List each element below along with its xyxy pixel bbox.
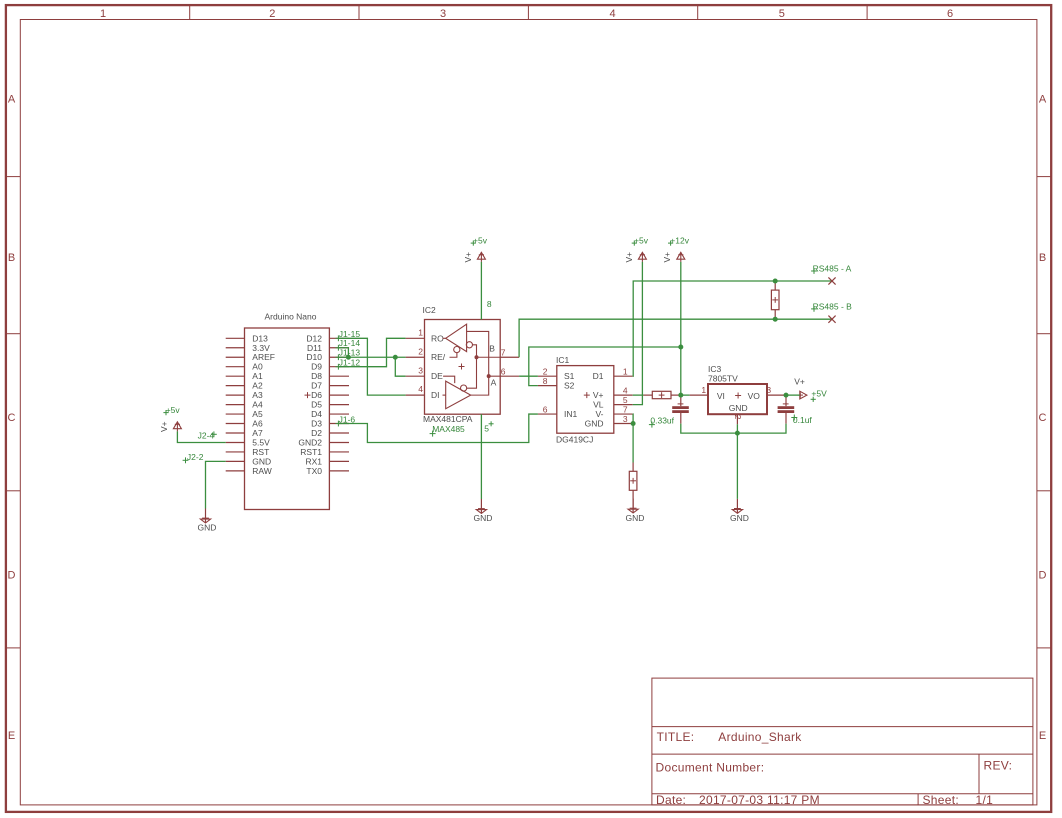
- Arduino Nano pin RST1: [329, 451, 349, 453]
- svg-text:7805TV: 7805TV: [708, 374, 738, 384]
- Arduino Nano pin 3.3V: [226, 347, 245, 349]
- svg-text:V+: V+: [662, 252, 672, 263]
- svg-text:+5v: +5v: [166, 405, 181, 415]
- wire IC2 pin 5 to ground: [480, 414, 482, 499]
- IC2 receiver inverting-input bubble: [466, 342, 472, 348]
- svg-text:VO: VO: [748, 391, 761, 401]
- wire branch RE/ to DE: [395, 357, 405, 376]
- ground (R3): [626, 499, 645, 523]
- svg-text:3: 3: [418, 365, 423, 375]
- svg-text:3: 3: [766, 385, 771, 395]
- wire Arduino GND to ground: [206, 461, 226, 508]
- power supply +5V (IC3 output): [794, 376, 827, 402]
- IC3 pin 1 VI: [690, 394, 708, 396]
- resistor R1 (series, V+ line): [643, 391, 680, 398]
- Arduino Nano pin RAW: [226, 470, 245, 472]
- svg-text:B: B: [489, 344, 495, 354]
- svg-text:DI: DI: [431, 390, 440, 400]
- ground (IC3): [730, 499, 749, 523]
- IC2 origin cross: [459, 366, 465, 368]
- svg-text:GND: GND: [474, 513, 493, 523]
- IC2 RE internal wire: [450, 353, 457, 357]
- Arduino Nano pin A6: [226, 423, 245, 425]
- IC1 pin 7: [614, 413, 633, 415]
- svg-text:RS485 - B: RS485 - B: [813, 301, 853, 311]
- IC1 pin 8: [538, 385, 557, 387]
- Arduino Nano pin AREF: [226, 356, 245, 358]
- svg-text:MAX481CPA: MAX481CPA: [423, 414, 473, 424]
- svg-text:E: E: [8, 730, 15, 742]
- svg-text:8: 8: [487, 299, 492, 309]
- svg-text:VI: VI: [717, 391, 725, 401]
- svg-text:1: 1: [100, 8, 106, 20]
- svg-text:Arduino_Shark: Arduino_Shark: [718, 730, 802, 744]
- op-amp transceiver IC2 MAX481CPA: [406, 299, 519, 437]
- Arduino Nano pin D13: [226, 337, 245, 339]
- Arduino Nano pin A2: [226, 385, 245, 387]
- power supply +12v (IC1 V+): [662, 236, 690, 263]
- IC2 receiver buffer triangle: [446, 324, 467, 351]
- svg-text:1: 1: [418, 327, 423, 337]
- net label RS485 - A: [811, 264, 852, 274]
- title block: [652, 678, 1033, 807]
- ground (Arduino GND): [198, 509, 217, 533]
- Arduino Nano pin TX0: [329, 470, 349, 472]
- net label J2-4: [198, 431, 217, 441]
- IC3 origin cross: [735, 395, 741, 397]
- net label RS485 - B: [811, 301, 852, 311]
- IC1 pin 1: [614, 375, 633, 377]
- svg-text:D: D: [8, 570, 16, 582]
- svg-text:J1-6: J1-6: [339, 414, 356, 424]
- wire D9 to IC2 RO (net J1-12): [338, 338, 405, 366]
- IC2 DE internal wire: [443, 376, 455, 383]
- svg-text:VL: VL: [593, 400, 604, 410]
- svg-text:8: 8: [543, 376, 548, 386]
- Arduino Nano pin D5: [329, 404, 349, 406]
- Arduino Nano pin GND2: [329, 441, 349, 443]
- IC1 pin 2: [538, 375, 557, 377]
- svg-text:+12v: +12v: [670, 236, 689, 246]
- wire IC3 GND to ground: [736, 424, 738, 499]
- svg-text:2: 2: [418, 346, 423, 356]
- resistor R3 (IC1 ground): [629, 463, 637, 510]
- svg-text:5: 5: [779, 8, 785, 20]
- svg-text:+5v: +5v: [473, 236, 488, 246]
- svg-text:RAW: RAW: [252, 466, 272, 476]
- wire IC3 VO to +5V arrow: [786, 394, 800, 396]
- svg-text:REV:: REV:: [984, 759, 1013, 773]
- junction S2/+12v: [678, 345, 683, 350]
- IC2 driver triangle: [446, 381, 471, 409]
- svg-text:5: 5: [484, 424, 489, 434]
- IC2 pin 3 DE: [406, 375, 425, 377]
- Arduino Nano pin RX1: [329, 460, 349, 462]
- Arduino Nano pin D12: [329, 337, 349, 339]
- svg-text:2: 2: [269, 8, 275, 20]
- svg-text:TITLE:: TITLE:: [657, 730, 695, 744]
- svg-text:RO: RO: [431, 333, 444, 343]
- voltage regulator IC3 7805TV: [690, 364, 786, 424]
- IC1 pin 6: [538, 413, 557, 415]
- svg-text:C: C: [1039, 412, 1047, 424]
- junction +12v/VI/C1: [678, 393, 683, 398]
- junction ground bus: [735, 431, 740, 436]
- svg-text:GND: GND: [198, 523, 217, 533]
- Arduino Nano pin D9: [329, 366, 349, 368]
- open end marker RS485-B: [828, 316, 835, 323]
- svg-text:+5V: +5V: [811, 389, 827, 399]
- svg-text:+5v: +5v: [634, 236, 649, 246]
- svg-text:V+: V+: [624, 252, 634, 263]
- wire IC2 B to RS485-B: [519, 319, 832, 357]
- power supply +5v (IC1 VL): [624, 236, 649, 263]
- IC2 pin 7 B: [500, 356, 519, 358]
- wire ground bus to C2: [737, 424, 786, 434]
- wire IC1 D1 to RS485-A: [633, 281, 832, 376]
- svg-text:Sheet:: Sheet:: [923, 793, 960, 807]
- svg-text:DE: DE: [431, 371, 443, 381]
- IC1 origin cross: [584, 394, 590, 396]
- svg-text:6: 6: [947, 8, 953, 20]
- Arduino Nano pin D3: [329, 423, 349, 425]
- Arduino Nano pin D2: [329, 432, 349, 434]
- wire IC2 A to IC1 S1: [519, 375, 538, 377]
- svg-text:GND: GND: [729, 403, 748, 413]
- svg-text:2: 2: [733, 415, 743, 420]
- wire IC1 GND junction to R3: [632, 424, 634, 463]
- wire D10 to IC2 RE/ (net J1-13): [338, 356, 405, 358]
- svg-text:4: 4: [418, 384, 423, 394]
- svg-text:V+: V+: [159, 421, 169, 432]
- Arduino Nano pin 5.5V: [226, 441, 245, 443]
- wire +5v to Arduino 5.5V: [177, 431, 225, 442]
- Arduino Nano pin A4: [226, 404, 245, 406]
- net label J1-13: [336, 348, 361, 360]
- Arduino Nano pin A5: [226, 413, 245, 415]
- IC1 pin 4: [614, 394, 633, 396]
- Arduino Nano pin D10: [329, 356, 349, 358]
- net label J1-14: [336, 338, 361, 350]
- svg-text:IC2: IC2: [423, 305, 437, 315]
- Arduino Nano pin D7: [329, 385, 349, 387]
- svg-text:7: 7: [501, 348, 506, 358]
- wire +12v to VI junction: [680, 262, 682, 395]
- svg-text:A: A: [8, 94, 16, 106]
- capacitor C2 0.1uf: [778, 395, 813, 425]
- IC1 pin 5: [614, 404, 633, 406]
- IC2 internal net B: [467, 345, 477, 388]
- svg-text:6: 6: [501, 367, 506, 377]
- net label J1-15: [336, 329, 361, 341]
- wire +5v to IC1 VL: [633, 262, 643, 405]
- IC1 pin 3: [614, 423, 633, 425]
- IC2 pin 4 DI: [406, 394, 425, 396]
- svg-text:GND: GND: [585, 419, 604, 429]
- svg-text:1/1: 1/1: [976, 793, 994, 807]
- svg-text:J1-12: J1-12: [339, 357, 361, 367]
- Arduino Nano pin D6: [329, 394, 349, 396]
- svg-text:B: B: [8, 252, 15, 264]
- wire R1 to IC3 VI: [680, 394, 689, 396]
- IC3 pin 2 GND: [736, 414, 738, 424]
- svg-text:V+: V+: [794, 376, 805, 386]
- junction RE//DE: [393, 355, 398, 360]
- svg-text:2017-07-03 11:17 PM: 2017-07-03 11:17 PM: [699, 793, 820, 807]
- svg-text:RS485 - A: RS485 - A: [813, 264, 852, 274]
- capacitor C1 0.33uf: [649, 395, 689, 427]
- IC2 pin 2 RE/: [406, 356, 425, 358]
- resistor R2 (RS485 termination): [771, 281, 779, 319]
- svg-text:Date:: Date:: [656, 793, 686, 807]
- svg-text:E: E: [1039, 730, 1046, 742]
- analog switch IC1 DG419CJ: [538, 355, 633, 444]
- wire D12 to IC2 DI (net J1-15): [338, 338, 405, 395]
- svg-text:J2-2: J2-2: [187, 452, 204, 462]
- svg-text:V+: V+: [463, 252, 473, 263]
- wire +5v to IC2 pin 8: [480, 262, 482, 320]
- svg-text:IN1: IN1: [564, 409, 578, 419]
- svg-text:1: 1: [701, 385, 706, 395]
- Arduino Nano pin GND: [226, 460, 245, 462]
- svg-text:A: A: [1039, 94, 1047, 106]
- svg-text:4: 4: [610, 8, 616, 20]
- power supply +5v (Arduino 5.5V): [159, 405, 182, 432]
- Arduino Nano pin D11: [329, 347, 349, 349]
- svg-text:D: D: [1039, 570, 1047, 582]
- Arduino Nano pin A1: [226, 375, 245, 377]
- net label J2-2: [183, 452, 204, 463]
- wire IC1 S2 to +12v line: [529, 347, 681, 386]
- svg-text:J1-14: J1-14: [339, 338, 361, 348]
- svg-text:DG419CJ: DG419CJ: [556, 434, 593, 444]
- power supply +5v (IC2 VCC): [463, 236, 488, 263]
- Arduino Nano pin D4: [329, 413, 349, 415]
- svg-text:1: 1: [623, 366, 628, 376]
- IC2 driver inverted-output bubble: [461, 385, 467, 391]
- svg-text:3: 3: [623, 414, 628, 424]
- svg-text:GND: GND: [626, 513, 645, 523]
- svg-text:GND: GND: [730, 513, 749, 523]
- junction IC1 V-/GND: [631, 421, 636, 426]
- svg-text:D1: D1: [593, 371, 604, 381]
- svg-text:RE/: RE/: [431, 352, 446, 362]
- net label J1-6: [336, 414, 356, 426]
- svg-text:C: C: [8, 412, 16, 424]
- wire D3 to IC1 IN1 (net J1-6): [338, 414, 538, 442]
- svg-text:B: B: [1039, 252, 1046, 264]
- IC2 internal net A: [467, 331, 489, 395]
- svg-text:IC3: IC3: [708, 364, 722, 374]
- svg-text:J1-13: J1-13: [339, 348, 361, 358]
- svg-text:V+: V+: [593, 390, 604, 400]
- wire D11 joining D10 net (net J1-14): [338, 348, 348, 357]
- svg-text:S2: S2: [564, 381, 575, 391]
- svg-text:TX0: TX0: [306, 466, 322, 476]
- junction RS485-B/R2: [773, 317, 778, 322]
- Arduino Nano pin A0: [226, 366, 245, 368]
- Arduino Nano pin D8: [329, 375, 349, 377]
- svg-text:J2-4: J2-4: [198, 431, 215, 441]
- IC2 pin 1 RO: [406, 337, 425, 339]
- svg-text:A: A: [491, 378, 497, 388]
- svg-text:S1: S1: [564, 371, 575, 381]
- IC2 pin 6 A: [500, 375, 519, 377]
- Arduino Nano pin RST: [226, 451, 245, 453]
- svg-text:IC1: IC1: [556, 355, 570, 365]
- IC2 receiver enable bubble: [454, 347, 460, 353]
- ground (IC2 pin 5): [474, 499, 493, 523]
- Arduino Nano pin A3: [226, 394, 245, 396]
- junction VO/C2: [784, 393, 789, 398]
- wire IC1 V+ to R1: [633, 394, 644, 396]
- open end marker RS485-A: [828, 277, 835, 284]
- svg-text:0.1uf: 0.1uf: [793, 415, 813, 425]
- svg-text:6: 6: [543, 404, 548, 414]
- junction RS485-A/R2: [773, 279, 778, 284]
- Arduino Nano module: [226, 311, 349, 509]
- svg-text:3: 3: [440, 8, 446, 20]
- wire IC1 V- to GND net: [632, 414, 634, 423]
- svg-text:Document Number:: Document Number:: [656, 761, 765, 775]
- wire C1 to ground bus: [681, 424, 738, 434]
- junction D11/D10: [346, 355, 351, 360]
- IC3 pin 3 VO: [767, 394, 786, 396]
- Arduino Nano origin cross: [305, 394, 311, 396]
- svg-text:MAX485: MAX485: [432, 424, 465, 434]
- Arduino Nano pin A7: [226, 432, 245, 434]
- net label J1-12: [336, 357, 361, 369]
- svg-text:Arduino Nano: Arduino Nano: [265, 311, 317, 321]
